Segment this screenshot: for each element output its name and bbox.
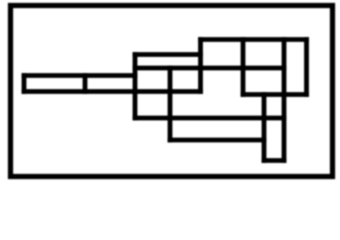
line V2 divider in left bar <box>83 76 88 92</box>
line V3 left edge of middle rect <box>133 55 138 119</box>
line H1 top edge of upper-right block <box>201 37 307 42</box>
line H2 top edge of middle rect <box>135 52 201 57</box>
line H4 top edge of left bar <box>24 73 135 78</box>
outer border frame <box>11 6 333 177</box>
line V1 left edge of left bar <box>22 76 27 92</box>
line H5b bottom edge of right cells <box>243 92 307 97</box>
line H7 bottom edge of lower-middle rect <box>170 138 264 143</box>
line H5a bottom edge of left bar and middle rect <box>24 89 201 94</box>
line H6 lower horizontal divider <box>135 116 284 121</box>
line V6 divider in upper-right block <box>241 40 246 95</box>
line V5 left edge of upper-right block <box>198 40 203 92</box>
line V7 right divider and right edge of descending rect <box>282 40 287 161</box>
line H3 long horizontal divider <box>135 66 284 71</box>
line V4 vertical divider mid <box>168 68 173 140</box>
line V8 right edge of upper-right block <box>304 40 309 95</box>
line V9 left edge of descending rect <box>262 95 267 161</box>
line H8 bottom edge of descending rect <box>264 158 284 163</box>
